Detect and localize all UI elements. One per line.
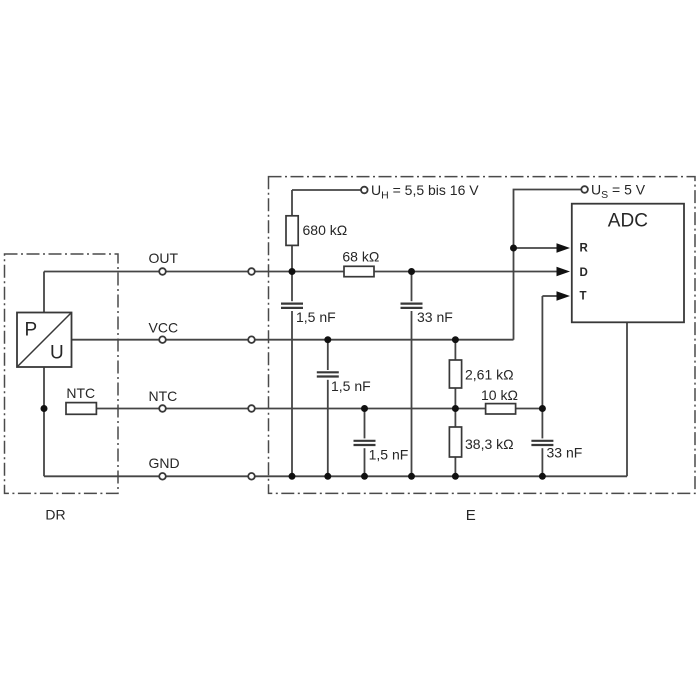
terminal US (581, 186, 588, 193)
svg-text:NTC: NTC (66, 385, 95, 401)
arrowhead into R (557, 243, 571, 253)
wire sensor vertical (43, 272, 45, 477)
junction dot NTC/1.5nF (361, 405, 368, 412)
terminal NTC pin1 (159, 405, 166, 412)
svg-text:1,5 nF: 1,5 nF (296, 309, 336, 325)
junction dot NTC/divider (452, 405, 459, 412)
svg-text:33 nF: 33 nF (417, 309, 453, 325)
wire R arrow lead (514, 247, 559, 249)
svg-text:1,5 nF: 1,5 nF (331, 378, 371, 394)
arrowhead into T (557, 291, 571, 301)
svg-text:1,5 nF: 1,5 nF (369, 447, 409, 463)
junction dot VCC/1.5nF (324, 336, 331, 343)
svg-text:680 kΩ: 680 kΩ (303, 222, 348, 238)
wire T arrow lead (542, 295, 558, 297)
svg-text:10 kΩ: 10 kΩ (481, 387, 518, 403)
wire branch A vertical (680k / 1.5nF) (291, 190, 293, 476)
resistor 68k (344, 266, 374, 276)
svg-text:T: T (580, 291, 587, 303)
capacitor C3 1,5nF (branch B) (317, 370, 339, 380)
svg-text:68 kΩ: 68 kΩ (342, 249, 379, 265)
svg-text:DR: DR (45, 507, 65, 523)
junction dot VCC/2.61k (452, 336, 459, 343)
junction dot 10k/T (539, 405, 546, 412)
sensor cell P/U box (17, 313, 72, 368)
junction dot GND/A (289, 473, 296, 480)
terminal OUT pin2 (248, 268, 255, 275)
svg-text:VCC: VCC (149, 320, 179, 336)
junction dot GND/B (324, 473, 331, 480)
junction dot GND/E (452, 473, 459, 480)
E evaluation-circuit enclosure (dash-dot box) (269, 177, 696, 494)
terminal VCC pin2 (248, 336, 255, 343)
terminal VCC pin1 (159, 336, 166, 343)
terminal OUT pin1 (159, 268, 166, 275)
wire GND rail (44, 475, 627, 477)
junction dot GND/F (539, 473, 546, 480)
svg-text:NTC: NTC (149, 388, 178, 404)
svg-text:R: R (580, 242, 589, 254)
wire branch C vertical (33nF) (411, 272, 413, 477)
arrowhead into D (557, 267, 571, 277)
svg-text:E: E (466, 507, 476, 524)
junction dot GND/C (408, 473, 415, 480)
svg-text:P: P (25, 320, 38, 341)
resistor NTC (66, 403, 96, 415)
capacitor C5 33nF (branch F) (531, 438, 553, 448)
wire OUT rail (44, 271, 558, 273)
junction dot R/5V (510, 245, 517, 252)
wire UH supply (292, 189, 361, 191)
svg-text:OUT: OUT (149, 250, 179, 266)
capacitor C2 33nF (branch C) (401, 301, 423, 311)
junction dot GND/D (361, 473, 368, 480)
wire branch D vertical (1.5nF) (364, 409, 366, 477)
wire branch B vertical (1.5nF) (327, 340, 329, 477)
svg-text:38,3 kΩ: 38,3 kΩ (465, 436, 514, 452)
junction dot sensor NTC (41, 405, 48, 412)
terminal GND pin2 (248, 473, 255, 480)
terminal UH (361, 187, 368, 194)
wire ADC ground lead (626, 322, 628, 476)
junction dot OUT/680k (289, 268, 296, 275)
wire VCC rail (72, 339, 514, 341)
resistor 2,61k (449, 360, 461, 388)
terminal NTC pin2 (248, 405, 255, 412)
resistor 680k (286, 216, 298, 246)
capacitor C1 1,5nF (branch A) (281, 301, 303, 311)
op-amp/ADC block U1 (572, 204, 684, 323)
wire branch F vertical (T / 33nF) (541, 296, 543, 476)
capacitor C4 1,5nF (branch D) (354, 438, 376, 448)
svg-text:ADC: ADC (608, 211, 648, 232)
terminal GND pin1 (159, 473, 166, 480)
wire branch G vertical (5V to R) (514, 190, 582, 340)
junction dot OUT/33nF (408, 268, 415, 275)
DR sensor enclosure (dash-dot box) (5, 254, 119, 493)
svg-text:GND: GND (149, 455, 180, 471)
wire NTC rail (96, 408, 542, 410)
svg-text:U: U (50, 343, 64, 364)
resistor 10k (486, 404, 516, 414)
svg-text:D: D (580, 267, 588, 279)
wire branch E vertical (2.61k / 38.3k) (454, 340, 456, 477)
svg-text:33 nF: 33 nF (547, 445, 583, 461)
svg-text:2,61 kΩ: 2,61 kΩ (465, 367, 514, 383)
resistor 38,3k (449, 427, 461, 457)
